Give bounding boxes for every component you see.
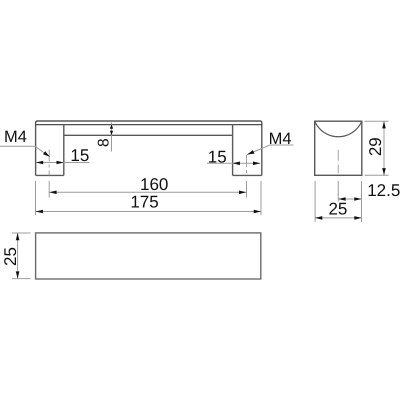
- dim 12.5 line: [338, 198, 361, 200]
- front view: hole centerline left: [48, 150, 50, 176]
- svg-text:M4: M4: [4, 128, 27, 146]
- ext top (29): [365, 120, 389, 122]
- svg-text:160: 160: [140, 175, 168, 194]
- dim 15 right line: [207, 162, 260, 164]
- arrow leader M4 left: [43, 151, 50, 157]
- extension line right (175): [260, 181, 262, 215]
- side view centerline extension: [337, 181, 339, 202]
- dim 160 line: [49, 191, 246, 193]
- dim 175 line: [36, 211, 262, 213]
- dim 25 side line: [315, 217, 361, 219]
- dim 15 left line: [36, 162, 90, 164]
- plan view outline: [36, 233, 261, 279]
- extension line left (175): [35, 181, 37, 215]
- dimension lines (gray): [0, 123, 294, 216]
- side view outline: [315, 121, 362, 175]
- svg-text:12.5: 12.5: [367, 181, 400, 200]
- arrowheads: [16, 121, 386, 278]
- arrows dim 12.5: [338, 197, 345, 201]
- dim 8 line: [111, 123, 113, 152]
- ext bottom (25 plan): [12, 278, 31, 280]
- arrows dim 15 left: [36, 161, 43, 165]
- arrows dim 29: [382, 121, 386, 128]
- arrows dim 25 plan: [16, 233, 20, 240]
- dim 25 plan line: [17, 233, 19, 279]
- svg-text:15: 15: [208, 148, 227, 167]
- arrows dim 8: [110, 124, 113, 129]
- arrows dim 160: [49, 191, 56, 195]
- front view: handle outline: [36, 121, 262, 175]
- arrows dim 15 right: [233, 162, 240, 166]
- svg-text:8: 8: [96, 138, 113, 147]
- svg-text:25: 25: [328, 200, 347, 219]
- dim 29 line: [383, 121, 385, 175]
- front view: hole centerline right: [246, 155, 248, 175]
- ext left (25 side): [314, 181, 316, 222]
- arrows dim 175: [36, 210, 43, 214]
- arrows dim 25 side: [315, 216, 322, 220]
- svg-text:175: 175: [130, 193, 158, 212]
- concave top arc: [315, 121, 362, 137]
- svg-text:29: 29: [366, 137, 385, 156]
- svg-text:M4: M4: [269, 130, 292, 148]
- svg-text:15: 15: [70, 146, 89, 165]
- ext right (25 side / 12.5): [361, 181, 363, 222]
- arrow leader M4 right: [247, 150, 254, 154]
- leader M4 right: [247, 145, 293, 155]
- leader M4 left: [0, 146, 50, 157]
- svg-text:25: 25: [1, 247, 20, 266]
- ext top (25 plan): [12, 232, 31, 234]
- side view centerline: [337, 150, 339, 174]
- ext bottom (29): [365, 174, 389, 176]
